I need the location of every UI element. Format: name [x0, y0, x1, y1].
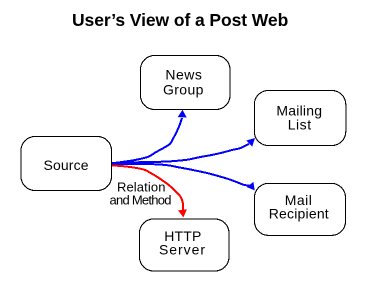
svg-text:List: List — [288, 117, 312, 133]
svg-text:and Method: and Method — [110, 193, 172, 208]
svg-text:Group: Group — [163, 82, 204, 98]
svg-text:User’s View of a Post Web: User’s View of a Post Web — [72, 10, 288, 30]
svg-text:Recipient: Recipient — [269, 206, 329, 222]
svg-text:News: News — [165, 67, 202, 83]
svg-text:Server: Server — [159, 242, 205, 258]
svg-text:Source: Source — [44, 157, 89, 173]
